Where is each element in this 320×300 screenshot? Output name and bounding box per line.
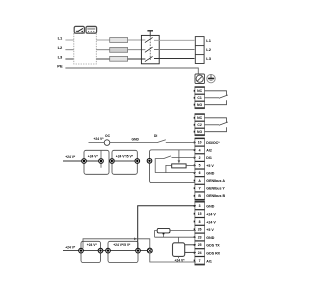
terminal C1 tab	[194, 97, 195, 99]
connection node (box1 left)	[82, 159, 87, 164]
wire fuse F2 to switch	[128, 49, 146, 51]
svg-text:+24 V*: +24 V*	[87, 243, 98, 247]
wire supply bypass run	[83, 239, 150, 251]
wire DI switch to terminal 10	[166, 142, 196, 144]
switch blade (to DI1)	[164, 156, 172, 159]
svg-text:+24 V*: +24 V*	[88, 155, 99, 159]
svg-text:+5 V: +5 V	[206, 228, 214, 232]
wire analog example feed line	[63, 250, 150, 252]
svg-text:+24 V: +24 V	[206, 213, 216, 217]
relay 2 terminal group	[194, 114, 205, 136]
svg-text:AI1: AI1	[206, 259, 212, 263]
svg-text:8: 8	[199, 220, 201, 224]
svg-text:DI3/OC*: DI3/OC*	[206, 141, 220, 145]
svg-text:+5 V: +5 V	[206, 164, 214, 168]
svg-text:L3: L3	[58, 55, 63, 60]
terminal NO tab	[194, 131, 195, 133]
svg-text:GND: GND	[206, 205, 214, 209]
svg-text:NO: NO	[197, 103, 202, 107]
terminal NC tab	[194, 117, 195, 119]
bypass arrowhead	[134, 238, 137, 241]
wire L2 to dashed box	[65, 49, 73, 51]
power terminal group (3,15,8,26,23,25,24,7)	[194, 201, 205, 265]
wire L1 dashed box to fuse F1	[96, 39, 109, 41]
svg-text:26: 26	[198, 228, 202, 232]
wire pot R2 left down	[155, 231, 158, 238]
relay 1 NO wire	[205, 100, 227, 105]
wire switch to terminal L2	[154, 49, 195, 51]
wire box1 internal drop	[100, 150, 102, 167]
svg-text:6: 6	[199, 171, 201, 175]
svg-text:DI: DI	[154, 134, 157, 138]
svg-text:15: 15	[198, 212, 202, 216]
svg-text:+24 V*: +24 V*	[94, 137, 105, 141]
potentiometer R2 (setpoint AI1)	[157, 228, 170, 233]
wire GDS TX to terminal 25	[185, 244, 196, 246]
switch pole 2 blade	[145, 47, 153, 52]
relay 2 NO wire	[205, 127, 227, 132]
wire GDS top to GND run	[177, 237, 179, 243]
svg-text:GENIbus Y: GENIbus Y	[206, 187, 225, 191]
wire wiper to terminal 4	[178, 150, 180, 161]
cable gland (PE entry)	[195, 74, 205, 84]
wire open collector line to DI3/OC terminal	[89, 142, 158, 144]
terminal B tab	[194, 195, 195, 197]
terminal 25 tab	[194, 244, 195, 246]
svg-text:L2: L2	[58, 45, 63, 50]
svg-text:L1: L1	[206, 38, 211, 43]
relay 1 NC wire	[205, 91, 227, 96]
terminal 23 tab	[194, 236, 195, 238]
svg-text:10: 10	[198, 141, 202, 145]
svg-text:OC: OC	[105, 134, 111, 138]
example box AI +24V/5V	[108, 241, 138, 262]
wire pot R2 right to terminal 26	[170, 230, 196, 232]
connection node (box2 right)	[135, 159, 140, 164]
svg-text:GENIbus A: GENIbus A	[206, 179, 225, 183]
wire GND long run to terminal 3	[138, 206, 196, 251]
svg-text:3: 3	[199, 204, 201, 208]
svg-text:GDS TX: GDS TX	[206, 244, 220, 248]
svg-text:GND: GND	[132, 138, 140, 142]
svg-text:NO: NO	[197, 130, 202, 134]
wire pot right to terminal 5	[186, 164, 196, 166]
terminal 3 tab	[194, 205, 195, 207]
wire GND run to terminal 23	[155, 236, 196, 238]
pot R2 wiper node	[163, 233, 165, 235]
svg-text:2: 2	[199, 156, 201, 160]
isolator linkage (dashed)	[149, 36, 151, 61]
connection node (boxA left)	[79, 248, 84, 253]
terminal 4 tab	[194, 149, 195, 151]
wire switch feed	[155, 159, 163, 173]
svg-text:NC: NC	[197, 89, 202, 93]
svg-text:L2: L2	[206, 47, 211, 52]
svg-text:DI1: DI1	[206, 156, 212, 160]
isolator switch S1 box	[141, 35, 159, 63]
DI switch blade	[157, 140, 166, 143]
open collector node	[104, 140, 110, 146]
connection node (sensor line, crossed)	[147, 248, 152, 253]
fuse F3	[110, 56, 128, 61]
wire L3 to dashed box	[65, 58, 73, 60]
wire switch to terminal 2	[172, 157, 196, 159]
terminal 15 tab	[194, 213, 195, 215]
wire PE run	[65, 68, 198, 75]
wire digital example feed line	[63, 160, 101, 162]
switch pole 1 blade	[145, 37, 153, 42]
wire fuse F1 to switch	[128, 39, 146, 41]
svg-text:GENIbus B: GENIbus B	[206, 194, 225, 198]
sensor GDS box	[173, 243, 185, 257]
terminal NC tab	[194, 90, 195, 92]
terminal block L1 L2 L3	[195, 37, 204, 64]
svg-text:+24 V*: +24 V*	[175, 259, 186, 263]
wire L3 dashed box to fuse F3	[96, 58, 109, 60]
svg-text:L1: L1	[58, 35, 63, 40]
relay 1 terminal group	[194, 87, 205, 109]
terminal 10 tab	[194, 142, 195, 144]
svg-text:GND: GND	[206, 236, 214, 240]
relay 2 common wire and contact blade	[205, 122, 228, 125]
wire GND rail to terminal 6	[155, 172, 196, 174]
terminal 7 tab	[194, 260, 195, 262]
terminal C2 tab	[194, 124, 195, 126]
svg-text:GDS RX: GDS RX	[206, 252, 220, 256]
connection node (box3 left)	[147, 159, 152, 164]
connection node (boxB left)	[106, 248, 111, 253]
terminal 26 tab	[194, 228, 195, 230]
svg-text:+24 V: +24 V	[206, 220, 216, 224]
terminal 6 tab	[194, 172, 195, 174]
wire switch to terminal L3	[154, 58, 195, 60]
svg-text:PE: PE	[57, 64, 63, 69]
example box AI +24V	[81, 241, 101, 262]
svg-text:+24 V*: +24 V*	[65, 245, 76, 249]
wire switch to terminal L1	[154, 39, 195, 41]
connection node (box1 internal)	[99, 159, 104, 164]
relay 1 common wire and contact blade	[205, 95, 228, 98]
terminal 2 tab	[194, 157, 195, 159]
wire pot left to GND rail	[166, 165, 172, 172]
fuse F1	[110, 38, 128, 43]
svg-text:25: 25	[198, 243, 202, 247]
relay 2 NC wire	[205, 118, 227, 123]
connection node (boxB right)	[136, 248, 141, 253]
svg-text:L3: L3	[206, 56, 211, 61]
svg-text:7: 7	[199, 259, 201, 263]
terminal 8 tab	[194, 221, 195, 223]
example box DI +24V	[84, 150, 109, 174]
potentiometer R1	[172, 164, 186, 168]
svg-text:24: 24	[198, 251, 202, 255]
ground (protective earth symbol)	[207, 74, 215, 82]
svg-text:NC: NC	[197, 116, 202, 120]
GDS bottom stub	[177, 256, 179, 258]
example box DI +24V/5V	[112, 150, 137, 174]
connection node (boxA right)	[98, 248, 103, 253]
wire L2 dashed box to fuse F2	[96, 49, 109, 51]
connection node (box2 left)	[110, 159, 115, 164]
wire box2 internal line	[112, 160, 137, 162]
fuse F2	[110, 48, 128, 53]
svg-text:+24 V*/5 V*: +24 V*/5 V*	[116, 155, 134, 159]
wire sensor line to terminal 7	[150, 253, 196, 262]
signal terminal group (10,4,2,5,6,A,Y,B)	[194, 138, 205, 200]
svg-text:+24 V*/5 V*: +24 V*/5 V*	[113, 243, 131, 247]
external supply dashed box	[74, 33, 97, 64]
svg-text:GND: GND	[206, 171, 214, 175]
terminal 24 tab	[194, 252, 195, 254]
svg-text:C1: C1	[197, 96, 201, 100]
svg-text:+24 V*: +24 V*	[65, 155, 76, 159]
wire fuse F3 to switch	[128, 58, 146, 60]
svg-text:5: 5	[199, 164, 201, 168]
wire L1 to dashed box	[65, 39, 73, 41]
svg-text:C2: C2	[197, 123, 201, 127]
icon: disconnect switch	[74, 26, 84, 33]
svg-text:AI2: AI2	[206, 149, 212, 153]
switch pole 3 blade	[145, 56, 153, 61]
isolator handle	[147, 31, 153, 36]
icon: fuses	[86, 26, 97, 33]
wiper arrowhead	[178, 160, 181, 163]
terminal Y tab	[194, 187, 195, 189]
example box setpoint (switch + potentiometer)	[150, 150, 196, 183]
terminal NO tab	[194, 104, 195, 106]
wire GDS RX to terminal 24	[185, 251, 196, 253]
svg-text:4: 4	[199, 148, 201, 152]
wire pot R2 wiper drop	[163, 234, 165, 237]
terminal 5 tab	[194, 164, 195, 166]
svg-text:23: 23	[198, 235, 202, 239]
terminal A tab	[194, 180, 195, 182]
